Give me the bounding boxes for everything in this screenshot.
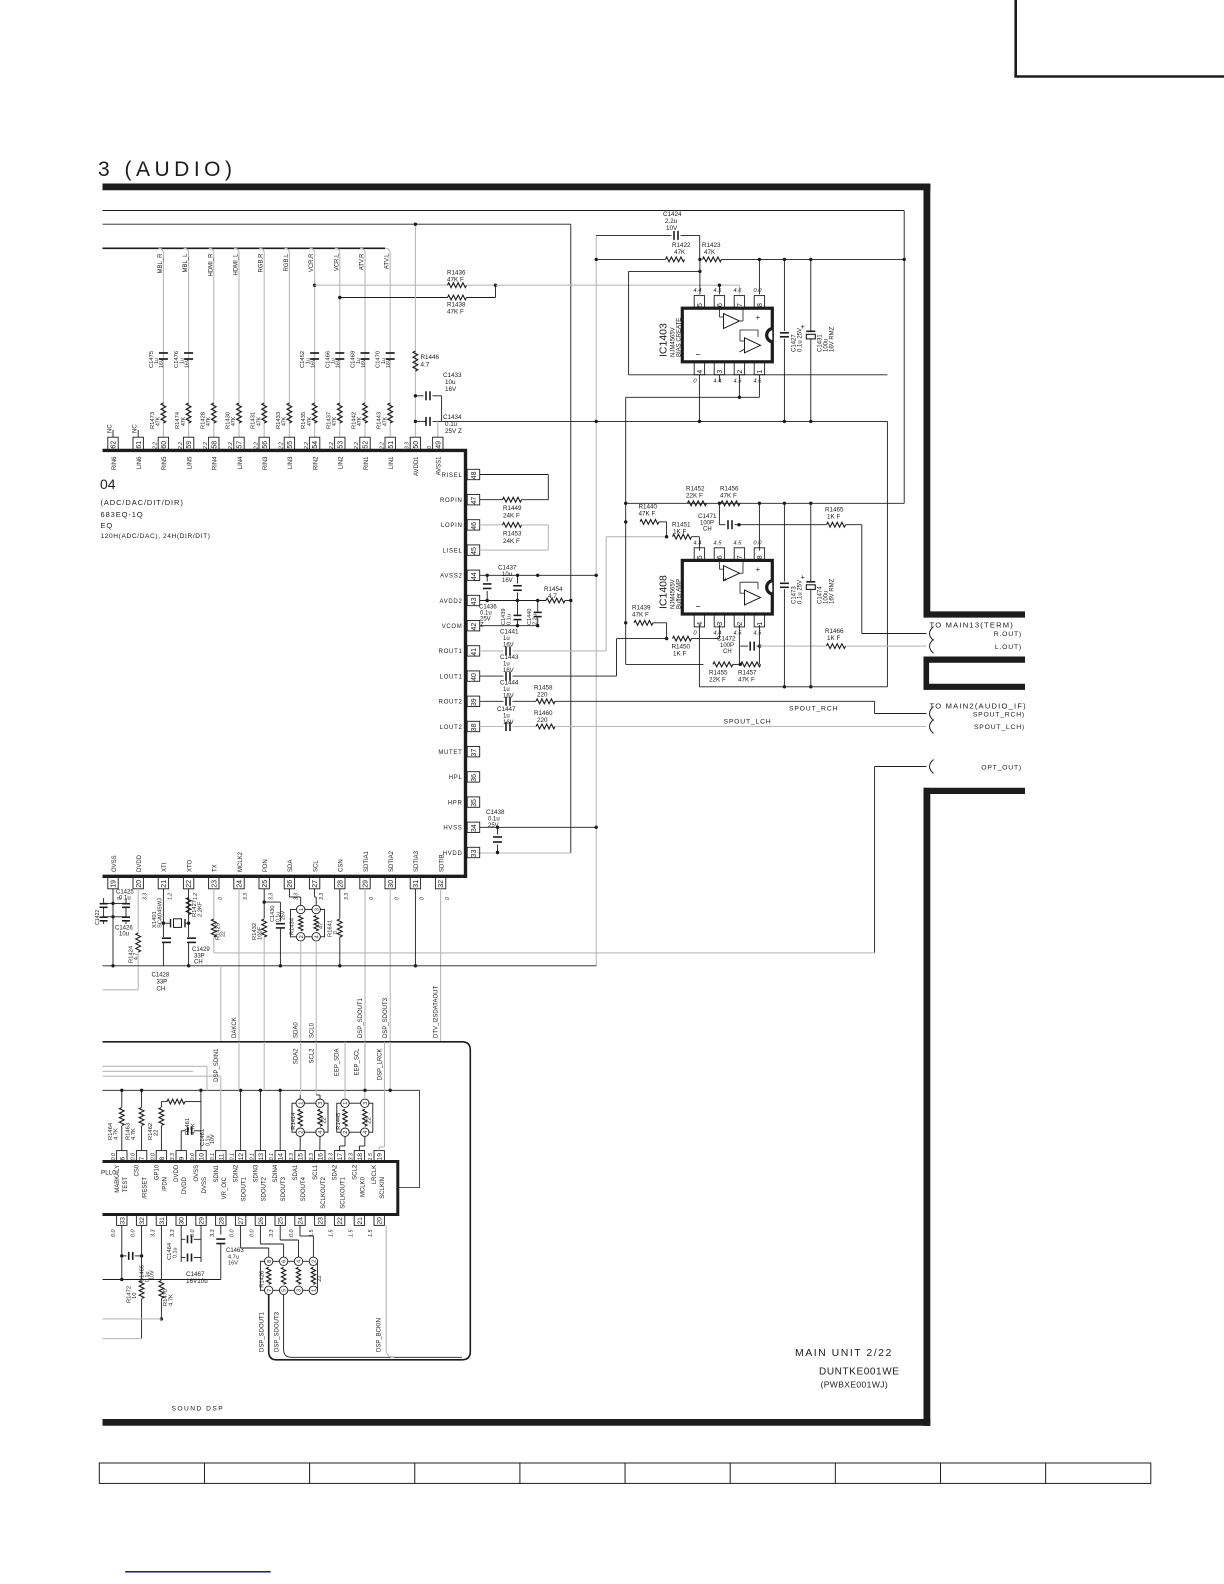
capacitor C1437 10u 16V	[517, 575, 519, 583]
svg-text:47K: 47K	[206, 416, 212, 426]
svg-text:3.3: 3.3	[142, 893, 148, 900]
wire: CSN pin28 down	[339, 889, 341, 919]
svg-text:VCR.L: VCR.L	[334, 253, 340, 271]
IC1404 pin 58 RIN4 (top)	[209, 437, 219, 450]
IC1404 pin 49 AVSS1 (top)	[433, 437, 443, 450]
svg-text:DSP_SDOUT3: DSP_SDOUT3	[383, 997, 389, 1038]
svg-text:25: 25	[262, 880, 269, 888]
IC1404 pin 46 LOPIN (right)	[467, 520, 480, 530]
svg-text:25V: 25V	[281, 910, 287, 920]
svg-text:1: 1	[299, 908, 305, 911]
IC1408 pin 4 (bottom)	[694, 614, 704, 627]
svg-text:60: 60	[161, 441, 168, 449]
capacitor C1439 0.1u	[517, 601, 519, 615]
svg-text:1: 1	[757, 622, 764, 626]
svg-text:0.0: 0.0	[150, 1153, 156, 1161]
svg-text:7: 7	[737, 303, 744, 307]
svg-text:GP10: GP10	[154, 1164, 160, 1180]
svg-text:0.0: 0.0	[289, 1230, 295, 1238]
capacitor C1466b 0.1u (pair bottom)	[187, 1254, 189, 1262]
wire: HVDD rail into pin33	[478, 852, 571, 854]
resistor R1473 47K (series on MBL_R)	[161, 403, 166, 423]
svg-text:0.1u: 0.1u	[488, 817, 500, 823]
capacitor C1470 1u 16V (series on ATV.L)	[386, 352, 395, 354]
wire: MCLK2 pin24 down to DSP (DAKCK)	[238, 889, 240, 1042]
frame: opening below OPT_OUT top bar	[924, 788, 1026, 794]
svg-text:C1429: C1429	[192, 947, 210, 953]
svg-text:2: 2	[343, 1131, 349, 1134]
svg-text:47K F: 47K F	[447, 309, 464, 316]
svg-text:16V: 16V	[386, 358, 392, 368]
svg-text:20: 20	[136, 880, 143, 888]
svg-text:AVDD2: AVDD2	[439, 599, 462, 605]
svg-text:DSP_BCKIN: DSP_BCKIN	[377, 1318, 383, 1352]
svg-text:HPR: HPR	[448, 800, 463, 806]
junction R1440/R1451	[665, 535, 668, 538]
svg-text:16V: 16V	[502, 578, 513, 584]
svg-text:6: 6	[717, 303, 724, 307]
IC1404 pin 48 RISEL (right)	[467, 469, 480, 479]
resistor R1435 47K (series on VCR.R)	[312, 403, 317, 423]
svg-text:35: 35	[471, 799, 478, 807]
svg-text:SDA: SDA	[288, 860, 294, 872]
box: SOUND DSP block outline	[103, 1042, 471, 1360]
svg-text:SOUND DSP: SOUND DSP	[172, 1406, 225, 1413]
DSP pin 21 (bottom)	[354, 1215, 364, 1226]
resistor R1423 47K	[703, 257, 722, 262]
svg-text:3.3: 3.3	[405, 442, 411, 449]
resistor R1457 47K F	[741, 662, 761, 667]
resistor R1462 22	[160, 1102, 162, 1107]
svg-text:10: 10	[132, 1293, 138, 1299]
svg-text:AVSS2: AVSS2	[440, 574, 462, 580]
svg-text:0.0: 0.0	[131, 1230, 137, 1238]
svg-text:2.2u: 2.2u	[665, 218, 678, 225]
svg-text:ROUT2: ROUT2	[439, 700, 463, 706]
wire: TX to OPT (gray)	[213, 937, 215, 953]
wire: XTI pin21 down	[162, 889, 164, 937]
capacitor C1427 0.1u 25V	[783, 259, 785, 331]
DSP pin 17 SDA2 (top)	[334, 1151, 344, 1162]
DSP pin 30 (bottom)	[176, 1215, 186, 1226]
svg-text:2.2u: 2.2u	[533, 614, 539, 625]
svg-text:16V10u: 16V10u	[186, 1278, 208, 1285]
svg-text:/RESET: /RESET	[143, 1177, 149, 1199]
resistor R1431 47K (series on RGB.R)	[262, 403, 267, 423]
svg-text:RIN1: RIN1	[364, 456, 370, 470]
IC1404 pin 29 SDTIA1 (bottom)	[360, 876, 370, 889]
svg-text:PDN: PDN	[263, 859, 269, 872]
svg-text:DAKCK: DAKCK	[232, 1017, 238, 1038]
svg-text:R1455: R1455	[709, 670, 728, 677]
capacitor C1436 0.1u 25V Z	[486, 575, 488, 581]
svg-text:15: 15	[298, 1153, 305, 1161]
wire: SPOUT_LCH line (gray)	[555, 726, 927, 728]
svg-text:10u: 10u	[119, 932, 129, 938]
wire: SDTIA3 pin31 down	[414, 889, 416, 966]
svg-text:R1453: R1453	[503, 531, 522, 538]
svg-text:SDA1: SDA1	[293, 1164, 299, 1180]
svg-text:7: 7	[139, 1157, 146, 1161]
svg-text:3: 3	[318, 1102, 324, 1105]
resistor network R1434 47 (SDA/SCL)	[291, 910, 325, 937]
IC1404 pin 21 XTI (bottom)	[158, 876, 168, 889]
svg-text:5: 5	[697, 555, 704, 559]
resistor network R1426 22	[260, 1261, 317, 1290]
svg-text:LIN3: LIN3	[288, 456, 294, 469]
svg-text:22: 22	[317, 1275, 323, 1281]
svg-text:47K: 47K	[332, 416, 338, 426]
frame: top thick bar	[103, 183, 931, 190]
svg-text:4: 4	[297, 1260, 303, 1263]
svg-text:19: 19	[111, 880, 118, 888]
wire: pins 12-14 up to bias line	[240, 1090, 242, 1150]
svg-text:24K F: 24K F	[503, 538, 520, 545]
svg-text:10: 10	[199, 1153, 206, 1161]
wire: HVSS pin34 to AVSS rail	[480, 826, 597, 828]
capacitor C1472 100P CH	[740, 645, 748, 647]
svg-text:2.2: 2.2	[253, 442, 259, 450]
svg-text:SDOUT3: SDOUT3	[281, 1176, 287, 1201]
svg-text:30: 30	[388, 880, 395, 888]
svg-text:16V: 16V	[503, 643, 514, 649]
resistor R1430 47K (series on HDMI_L)	[237, 403, 242, 423]
junction C1433 left	[414, 394, 417, 397]
junction pin8 supply	[758, 258, 761, 261]
svg-text:04: 04	[100, 476, 116, 492]
svg-text:C1471: C1471	[698, 513, 717, 520]
IC1404 pin 54 RIN2 (top)	[309, 437, 319, 450]
svg-text:4.5: 4.5	[713, 541, 722, 547]
svg-text:LIN4: LIN4	[238, 456, 244, 469]
capacitor C1434 0.1u 25V Z	[415, 420, 426, 422]
svg-text:LRCLK: LRCLK	[372, 1165, 378, 1184]
svg-text:HDMI_L: HDMI_L	[234, 253, 240, 276]
IC1404 pin 43 AVDD2 (right)	[467, 595, 480, 605]
svg-text:42: 42	[471, 623, 478, 631]
wire: pin3 stub	[718, 375, 720, 382]
wire: SCL0 down to DSP	[315, 941, 317, 1042]
svg-text:23: 23	[317, 1217, 324, 1225]
DSP pin 6 MABKALY (top)	[117, 1151, 127, 1162]
svg-text:+: +	[801, 573, 806, 582]
IC1404 pin 37 MUTET (right)	[467, 747, 480, 757]
svg-text:HPL: HPL	[449, 775, 463, 781]
svg-text:C1438: C1438	[486, 809, 505, 816]
svg-text:12: 12	[238, 1153, 245, 1161]
wire: DSP_SDOUT1 into box	[364, 1042, 366, 1091]
svg-text:21: 21	[161, 880, 168, 888]
IC1404 pin 19 OVSS (bottom)	[108, 876, 118, 889]
wire: SDTIA1 pin29 down (DSP_SDOUT1)	[364, 889, 366, 1042]
IC1404 pin 59 LIN5 (top)	[183, 437, 193, 450]
svg-text:DSP_SDOUT1: DSP_SDOUT1	[260, 1311, 266, 1352]
junction x596/HVSS line	[595, 826, 598, 829]
svg-text:R1423: R1423	[702, 242, 721, 249]
svg-text:TX: TX	[213, 864, 219, 872]
junction R1454/HVDD rail	[569, 599, 572, 602]
svg-text:0.1: 0.1	[269, 1153, 275, 1161]
svg-text:CH: CH	[157, 987, 166, 993]
svg-text:43: 43	[471, 597, 478, 605]
svg-text:16V: 16V	[503, 668, 514, 674]
wire: VCR.L to R1438	[340, 297, 448, 299]
svg-text:47K: 47K	[307, 416, 313, 426]
svg-text:28: 28	[218, 1217, 225, 1225]
svg-text:17: 17	[337, 1153, 344, 1161]
svg-text:SCL2: SCL2	[310, 1048, 316, 1064]
svg-text:SDTIA1: SDTIA1	[364, 850, 370, 872]
svg-text:CH: CH	[723, 649, 732, 655]
junction C1434 left	[414, 420, 417, 423]
wire: pin33 down	[121, 1225, 123, 1279]
svg-text:16V: 16V	[503, 720, 514, 726]
svg-text:3.3: 3.3	[294, 893, 300, 900]
wire: pin4 bias branch	[698, 625, 700, 687]
IC1404 pin 23 TX (bottom)	[209, 876, 219, 889]
svg-text:55: 55	[287, 441, 294, 449]
svg-text:51: 51	[388, 441, 395, 449]
wire: thin line y=374.8 under IC1403	[629, 374, 888, 376]
wire: AVSS2 pin44	[480, 574, 597, 576]
wire: bias rail right corner down x=887	[886, 421, 888, 686]
svg-text:0.0: 0.0	[111, 1153, 117, 1161]
svg-text:SPOUT_LCH: SPOUT_LCH	[724, 718, 772, 725]
junction x596/AVSS2 line	[595, 574, 598, 577]
svg-text:4.5: 4.5	[753, 631, 762, 637]
capacitor C1440 2.2u	[537, 601, 539, 612]
svg-text:0.0: 0.0	[190, 1153, 196, 1161]
DSP pin 33 (bottom)	[117, 1215, 127, 1226]
frame: bracket above TO MAIN2 bottom bar	[924, 684, 1026, 690]
svg-text:4: 4	[697, 370, 704, 374]
frame: bracket above TO MAIN2 vertical	[923, 657, 929, 690]
DSP pin 10 OVSS (top)	[196, 1151, 206, 1162]
junction output/bias	[624, 502, 627, 505]
capacitor C1425 0.1u	[113, 902, 126, 904]
svg-text:0.1: 0.1	[210, 1153, 216, 1161]
svg-text:59: 59	[186, 441, 193, 449]
wire: R1450 to pin3	[692, 638, 720, 640]
svg-text:+: +	[756, 565, 761, 574]
svg-text:3: 3	[363, 1102, 369, 1105]
IC1404 pin 30 SDTIA2 (bottom)	[385, 876, 395, 889]
svg-text:R1457: R1457	[738, 670, 757, 677]
svg-text:47K F: 47K F	[447, 277, 464, 284]
wire: network to pins 17,18	[344, 1136, 346, 1146]
svg-text:33P: 33P	[157, 980, 168, 986]
wire: R1436 out (gray) to IC1403 pin7	[467, 284, 496, 286]
svg-text:RGB.L: RGB.L	[284, 253, 290, 272]
svg-text:1u: 1u	[503, 714, 510, 720]
svg-text:4.6: 4.6	[733, 288, 742, 294]
svg-text:3.3: 3.3	[170, 1153, 176, 1161]
IC sound DSP body (cut at page edge)	[103, 1162, 398, 1215]
svg-text:24K F: 24K F	[503, 513, 520, 520]
wire: SCL pin27 to network	[314, 889, 316, 897]
IC1404 pin 40 LOUT1 (right)	[467, 671, 480, 681]
wire: pin2 output down	[738, 375, 740, 398]
svg-text:ROPIN: ROPIN	[440, 498, 463, 504]
svg-text:50: 50	[413, 441, 420, 449]
svg-text:16V: 16V	[445, 386, 457, 393]
svg-text:6: 6	[282, 1260, 288, 1263]
capacitor C1465 0.1u 10V	[122, 1255, 127, 1257]
resistor network R1445 22	[337, 1103, 373, 1132]
IC1403 pin 6 (top)	[714, 296, 724, 309]
IC1408 pin 1 (bottom)	[754, 614, 764, 627]
svg-text:C1422: C1422	[95, 910, 101, 925]
svg-text:NC: NC	[133, 424, 139, 433]
IC1404 pin 52 RIN1 (top)	[360, 437, 370, 450]
resistor R1452 22K F	[688, 501, 707, 506]
wire: pin29 down	[200, 1225, 202, 1262]
wire: EEP_SCL up	[364, 1042, 366, 1099]
IC1408 pin 2 (bottom)	[734, 614, 744, 627]
svg-text:LIN1: LIN1	[389, 456, 395, 469]
svg-text:CH: CH	[703, 527, 712, 533]
wire: input HDMI_R	[209, 248, 214, 437]
wire: HVDD rail vertical x=571	[570, 224, 572, 853]
IC1404 pin 33 HVDD (right)	[467, 847, 480, 857]
svg-text:EEP_SCL: EEP_SCL	[354, 1048, 360, 1076]
connector OPT_OUT	[930, 760, 934, 774]
capacitor C1430 0.1u 25V	[264, 901, 280, 903]
svg-text:47K: 47K	[704, 249, 716, 256]
IC1408 pin 6 (top)	[714, 548, 724, 561]
resistor R1433 47K (series on RGB.L)	[287, 403, 292, 423]
capacitor C1461 0.1u 10V	[181, 1130, 185, 1132]
IC IC1404 audio codec body (cut at page edge)	[103, 450, 466, 876]
svg-text:3: 3	[717, 622, 724, 626]
svg-text:R1438: R1438	[447, 302, 466, 309]
svg-text:0.1u: 0.1u	[119, 896, 131, 902]
junction AVDD1/y224 rail	[414, 223, 417, 226]
svg-text:20: 20	[377, 1217, 384, 1225]
svg-text:13: 13	[258, 1153, 265, 1161]
IC1404 pin 22 XTO (bottom)	[183, 876, 193, 889]
connector SPOUT_RCH	[930, 707, 934, 721]
svg-text:23: 23	[211, 880, 218, 888]
IC1404 pin 45 LISEL (right)	[467, 545, 480, 555]
svg-text:26: 26	[258, 1217, 265, 1225]
wire: R1438 out up to node	[467, 297, 496, 299]
svg-text:2.2: 2.2	[178, 442, 184, 450]
svg-text:BIAS CREATE: BIAS CREATE	[677, 318, 683, 357]
connector L.OUT	[930, 639, 934, 653]
svg-text:4.7K: 4.7K	[131, 1128, 137, 1140]
svg-text:R1414: R1414	[291, 1112, 297, 1130]
svg-text:L.OUT): L.OUT)	[995, 644, 1022, 651]
DSP pin 11 SDIN1 (top)	[216, 1151, 226, 1162]
frame: bracket above TO MAIN2 top bar	[924, 656, 1026, 662]
svg-text:SDTIA3: SDTIA3	[414, 850, 420, 872]
wire: AVDD2 pin43	[480, 600, 546, 602]
svg-text:4.4: 4.4	[693, 288, 701, 294]
IC1404 pin 24 MCLK2 (bottom)	[234, 876, 244, 889]
svg-text:16V: 16V	[361, 358, 367, 368]
wire: SPOUT_RCH line	[555, 700, 875, 702]
wire: R1423 out to x904	[722, 258, 905, 260]
wire: input RGB.R	[259, 248, 264, 437]
IC1403 pin 1 (bottom)	[754, 362, 764, 375]
svg-text:34: 34	[471, 824, 478, 832]
svg-text:16V: 16V	[228, 1261, 238, 1267]
svg-text:C1447: C1447	[497, 706, 516, 713]
svg-text:R1460: R1460	[534, 710, 553, 717]
wire: DVDD pin20 down	[137, 889, 139, 933]
resistor R1474 47K (series on MBL_L)	[186, 403, 191, 423]
svg-text:OVSS: OVSS	[194, 1165, 200, 1182]
wire: y=503 rail from x904	[626, 502, 905, 504]
DSP pin 7 CS0 (top)	[136, 1151, 146, 1162]
wire: R1422 left to x596	[596, 258, 665, 260]
svg-text:47: 47	[319, 923, 325, 929]
wire: VCR.R to R1436 (gray)	[315, 284, 448, 286]
svg-text:SDIN2: SDIN2	[234, 1164, 240, 1182]
svg-text:2.2: 2.2	[228, 442, 234, 450]
wire: R1439 out	[653, 622, 667, 624]
svg-text:49: 49	[435, 441, 442, 449]
wire: TX pin23 down	[213, 889, 215, 919]
svg-text:R1449: R1449	[503, 505, 522, 512]
pin 62 NC stub	[112, 430, 114, 437]
svg-text:AVDD1: AVDD1	[414, 456, 420, 476]
wire: SDA0 into network	[300, 1042, 302, 1095]
svg-text:8: 8	[757, 555, 764, 559]
wire: AVDD1 vertical x=415	[414, 224, 416, 437]
svg-text:32: 32	[438, 880, 445, 888]
svg-text:24: 24	[298, 1217, 305, 1225]
svg-text:1.5: 1.5	[329, 1229, 335, 1237]
svg-text:18: 18	[357, 1153, 364, 1161]
wire: SCL0 into network	[315, 1042, 317, 1095]
svg-text:+: +	[801, 322, 806, 331]
svg-text:0.0: 0.0	[753, 541, 762, 547]
svg-text:TO MAIN2(AUDIO_IF): TO MAIN2(AUDIO_IF)	[930, 701, 1027, 710]
svg-text:0.0: 0.0	[249, 1230, 255, 1238]
DSP pin 27 (bottom)	[235, 1215, 245, 1226]
svg-text:1K F: 1K F	[673, 529, 686, 536]
wire: DAKCK into box	[238, 1042, 240, 1091]
svg-text:47K: 47K	[674, 249, 686, 256]
svg-text:2.2: 2.2	[279, 442, 285, 450]
svg-text:4.5: 4.5	[733, 379, 742, 385]
resistor R1466 1K F	[827, 644, 846, 649]
svg-text:4.4: 4.4	[713, 379, 721, 385]
op-amp IC1408 body	[682, 560, 772, 614]
svg-text:220: 220	[537, 717, 548, 724]
svg-text:1.2: 1.2	[193, 893, 199, 900]
wire: ground rail y=966	[103, 965, 597, 967]
svg-text:ATV.L: ATV.L	[385, 253, 391, 269]
svg-text:C1434: C1434	[443, 414, 462, 421]
wire: input ATV.L	[385, 248, 390, 437]
wire: R1440 out	[659, 521, 667, 523]
svg-text:2.2: 2.2	[203, 442, 209, 450]
resistor R1470 4.7K	[159, 1281, 164, 1299]
IC1404 pin 51 LIN1 (top)	[385, 437, 395, 450]
svg-text:27: 27	[312, 880, 319, 888]
svg-text:LISEL: LISEL	[443, 548, 463, 554]
DSP pin 22 (bottom)	[334, 1215, 344, 1226]
svg-text:LOUT1: LOUT1	[440, 674, 463, 680]
wire: bias bottom rail y=687	[699, 686, 887, 688]
svg-text:SDOUT1: SDOUT1	[242, 1176, 248, 1201]
svg-text:DTV_I2SDATAOUT: DTV_I2SDATAOUT	[434, 986, 440, 1038]
svg-text:52: 52	[363, 441, 370, 449]
svg-text:SCL1: SCL1	[313, 1164, 319, 1180]
